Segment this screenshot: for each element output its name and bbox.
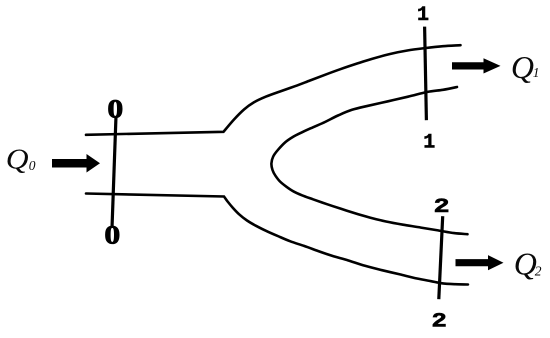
svg-text:0: 0 [107, 95, 123, 124]
pipe main bottom wall + lower branch outer wall [86, 194, 468, 285]
section line 0-0 [112, 116, 116, 228]
svg-text:2: 2 [431, 310, 447, 334]
section line 1-1 [425, 27, 427, 121]
svg-text:1: 1 [417, 4, 429, 27]
svg-text:Q: Q [511, 49, 534, 85]
svg-text:0: 0 [104, 221, 120, 250]
flow arrow Q2 [456, 255, 504, 270]
label Q1 [511, 49, 540, 85]
svg-text:0: 0 [29, 158, 36, 173]
svg-text:1: 1 [533, 65, 540, 80]
flow arrow Q1 [452, 58, 501, 73]
svg-text:Q: Q [6, 144, 29, 175]
svg-text:2: 2 [434, 195, 450, 218]
svg-text:2: 2 [535, 263, 542, 278]
pipe main top wall + upper branch outer wall [86, 45, 461, 135]
svg-text:Q: Q [514, 246, 537, 282]
pipe inner dividing wall (C curve) [271, 87, 467, 234]
label Q0 [6, 144, 36, 175]
label Q2 [514, 246, 542, 282]
section line 2-2 [439, 216, 443, 299]
flow arrow Q0 [52, 154, 100, 173]
svg-text:1: 1 [423, 132, 435, 155]
